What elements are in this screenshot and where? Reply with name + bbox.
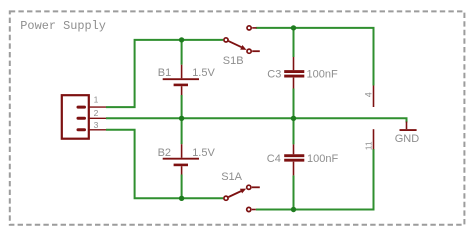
svg-text:S1A: S1A xyxy=(221,171,242,183)
svg-text:C4: C4 xyxy=(267,153,281,165)
connector pin 2 xyxy=(77,108,107,120)
svg-text:100nF: 100nF xyxy=(307,153,338,165)
svg-text:B1: B1 xyxy=(158,67,171,79)
svg-text:1.5V: 1.5V xyxy=(192,67,215,79)
battery B1 xyxy=(163,65,199,95)
wire net GND from connector pin2 to ground corner xyxy=(106,118,407,122)
svg-text:B2: B2 xyxy=(158,147,171,159)
wire net from connector pin3 down to S1A pole xyxy=(106,130,223,199)
ground symbol xyxy=(400,122,417,131)
wire net VCC from S1B throw to IC pin 4 xyxy=(256,28,374,86)
junction C3 top rail xyxy=(291,25,296,30)
svg-text:C3: C3 xyxy=(267,68,281,80)
svg-text:S1B: S1B xyxy=(223,55,244,67)
svg-text:Power Supply: Power Supply xyxy=(20,19,106,33)
wire B2 bottom lead to bottom rail xyxy=(181,175,183,199)
svg-text:1: 1 xyxy=(94,95,99,105)
battery B2 xyxy=(163,144,199,174)
svg-text:2: 2 xyxy=(94,108,99,118)
junction B1/B2 middle rail xyxy=(179,116,184,121)
wire C3 top lead xyxy=(293,28,295,57)
wire net VEE from S1A throw to IC pin 11 xyxy=(256,149,374,210)
IC power pin 11 xyxy=(373,129,375,149)
IC power pin 4 xyxy=(373,86,375,108)
junction B2 bottom rail xyxy=(179,196,184,201)
wire B2 top lead to middle rail xyxy=(181,118,183,144)
wire C3 bottom lead to middle rail xyxy=(293,89,295,119)
junction C3/C4 middle rail xyxy=(291,116,296,121)
wire B1 bottom lead to middle rail xyxy=(181,95,183,118)
wire C4 top lead to middle rail xyxy=(293,118,295,144)
switch S1A xyxy=(224,185,260,211)
svg-text:100nF: 100nF xyxy=(307,68,338,80)
svg-text:GND: GND xyxy=(395,133,420,145)
junction B1 top rail xyxy=(179,37,184,42)
svg-text:3: 3 xyxy=(94,120,99,130)
junction C4 bottom rail xyxy=(291,207,296,212)
svg-text:11: 11 xyxy=(363,141,373,150)
svg-text:4: 4 xyxy=(364,92,374,97)
connector pin 1 xyxy=(77,95,107,109)
connector pin 3 xyxy=(77,120,107,131)
connector X1 body xyxy=(62,95,89,139)
svg-text:1.5V: 1.5V xyxy=(192,147,215,159)
wire net from connector pin1 up to S1B pole xyxy=(106,40,223,107)
capacitor C4 xyxy=(284,144,304,175)
wire C4 bottom lead xyxy=(293,175,295,209)
switch S1B xyxy=(224,26,260,54)
capacitor C3 xyxy=(284,57,304,89)
wire B1 top lead to top rail xyxy=(181,40,183,65)
